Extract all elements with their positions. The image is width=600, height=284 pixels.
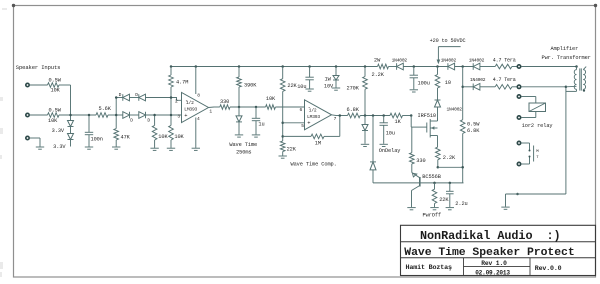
svg-text:D: D [135, 92, 138, 98]
svg-text:10K: 10K [174, 134, 184, 140]
svg-text:4.7 Tera: 4.7 Tera [493, 58, 516, 64]
svg-text:02.09.2013: 02.09.2013 [475, 270, 510, 277]
svg-text:Amplifier: Amplifier [551, 46, 579, 52]
svg-text:22K: 22K [439, 197, 449, 203]
svg-text:10V: 10V [324, 84, 334, 90]
svg-text:Pwr. Transformer: Pwr. Transformer [542, 55, 591, 61]
svg-text:BC556B: BC556B [422, 174, 440, 180]
svg-text:1N4002: 1N4002 [392, 58, 408, 64]
svg-text:5: 5 [301, 123, 304, 129]
svg-text:6.8K: 6.8K [347, 107, 360, 113]
svg-text:3: 3 [177, 114, 180, 120]
svg-text:4: 4 [197, 116, 200, 122]
svg-text:6.8K: 6.8K [467, 128, 480, 134]
svg-text:1: 1 [209, 108, 212, 114]
svg-text:1or2 relay: 1or2 relay [522, 123, 553, 129]
svg-text:D: D [119, 92, 122, 98]
svg-text:LM393: LM393 [307, 114, 320, 120]
svg-text:3.3V: 3.3V [52, 128, 65, 134]
svg-text:22K: 22K [287, 83, 297, 89]
svg-text:250ms: 250ms [236, 149, 251, 155]
svg-text:0.5W: 0.5W [49, 108, 62, 114]
svg-text:10K: 10K [158, 134, 168, 140]
svg-text:10K: 10K [51, 88, 61, 94]
svg-text:330: 330 [416, 158, 425, 164]
svg-text:OnDelay: OnDelay [379, 148, 401, 154]
svg-text:Wave Time Speaker Protect: Wave Time Speaker Protect [404, 246, 574, 259]
svg-text:1K: 1K [395, 119, 402, 125]
svg-text:1N4002: 1N4002 [447, 107, 463, 113]
svg-text:100n: 100n [91, 137, 103, 143]
svg-text:+: + [307, 120, 310, 127]
svg-text:5.6K: 5.6K [99, 106, 112, 112]
svg-text:+20 to 50VDC: +20 to 50VDC [430, 38, 466, 44]
svg-text:PwrOff: PwrOff [423, 213, 441, 219]
svg-text:10: 10 [445, 80, 451, 86]
svg-text:10u: 10u [386, 131, 395, 137]
svg-text:7: 7 [334, 116, 337, 122]
svg-text:4.7M: 4.7M [176, 80, 188, 86]
svg-text:47K: 47K [121, 135, 131, 141]
svg-text:1N4002: 1N4002 [470, 77, 486, 83]
svg-text:390K: 390K [244, 83, 257, 89]
svg-text:Rev 1.0: Rev 1.0 [481, 260, 507, 267]
svg-text:Wave Time Comp.: Wave Time Comp. [291, 162, 337, 168]
svg-text:100u: 100u [418, 81, 430, 87]
svg-text:2W: 2W [374, 58, 381, 64]
svg-text:1M: 1M [315, 140, 321, 146]
svg-text:0.5W: 0.5W [467, 122, 480, 128]
svg-text:Wave Time: Wave Time [229, 142, 257, 148]
svg-text:Hamit Boztaş: Hamit Boztaş [406, 264, 452, 272]
svg-text:1/2: 1/2 [309, 108, 317, 114]
svg-text:2.2u: 2.2u [455, 201, 467, 207]
svg-text:22K: 22K [287, 147, 297, 153]
svg-text:330: 330 [220, 99, 229, 105]
svg-text:1u: 1u [258, 122, 264, 128]
svg-text:D: D [147, 118, 150, 124]
svg-text:10K: 10K [266, 96, 276, 102]
svg-text:2.2K: 2.2K [443, 155, 456, 161]
svg-text:10K: 10K [48, 118, 58, 124]
svg-text:270K: 270K [347, 86, 360, 92]
svg-text:6: 6 [300, 107, 303, 113]
svg-text:0.5W: 0.5W [49, 78, 62, 84]
svg-text:2.2K: 2.2K [372, 72, 385, 78]
svg-text:4.7 Tera: 4.7 Tera [493, 77, 516, 83]
svg-text:Rev.0.0: Rev.0.0 [535, 265, 562, 272]
svg-text:2: 2 [175, 99, 178, 105]
svg-text:3.3V: 3.3V [53, 144, 66, 150]
svg-text:+: + [184, 112, 187, 119]
svg-text:1N4002: 1N4002 [469, 58, 485, 64]
svg-text:D: D [130, 118, 133, 124]
svg-text:10u: 10u [297, 84, 306, 90]
svg-text:1/2: 1/2 [186, 100, 194, 106]
svg-text:LM393: LM393 [184, 107, 197, 113]
svg-text:Speaker Inputs: Speaker Inputs [16, 64, 61, 71]
svg-text:NonRadikal Audio :): NonRadikal Audio :) [420, 229, 561, 243]
svg-text:1W: 1W [325, 76, 332, 82]
svg-text:1N4002: 1N4002 [441, 58, 457, 64]
svg-text:8: 8 [197, 93, 200, 99]
svg-text:IRF510: IRF510 [418, 113, 436, 119]
